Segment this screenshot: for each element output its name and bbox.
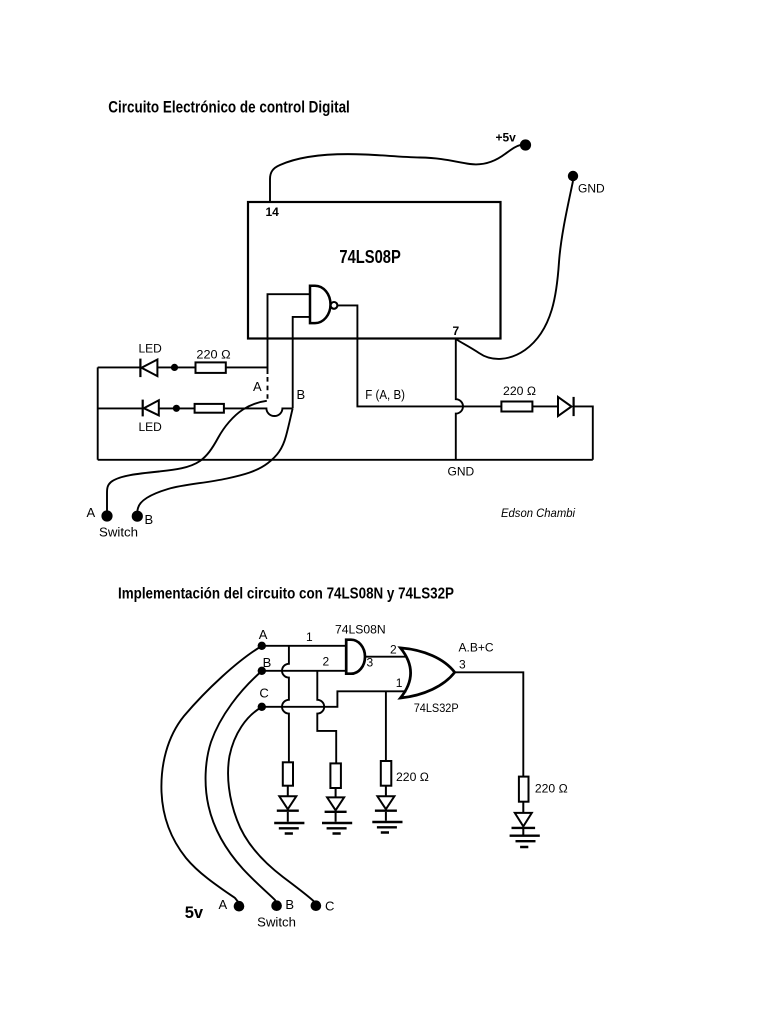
resistor R6 (381, 761, 392, 786)
long switch wire B (206, 671, 277, 903)
IC U1 74LS08P body (248, 202, 501, 339)
wire: gate output to F row and to resistor (337, 305, 501, 406)
svg-text:F (A, B): F (A, B) (365, 388, 405, 402)
svg-text:14: 14 (266, 205, 280, 219)
svg-text:5v: 5v (185, 904, 204, 922)
svg-text:2: 2 (390, 643, 397, 657)
wire: branch A down with two hops (282, 646, 289, 763)
wire: LED row 1 (98, 366, 268, 368)
switch C dot bottom (311, 900, 322, 911)
junction dot row 2 (173, 405, 180, 412)
GND terminal dot (568, 171, 578, 181)
svg-text:220 Ω: 220 Ω (535, 782, 568, 796)
switch A dot (101, 510, 112, 521)
svg-text:3: 3 (459, 658, 466, 672)
wire: pin 14 to +5v terminal (270, 145, 521, 202)
wire: gate input 1 down to node A (268, 294, 311, 374)
svg-text:LED: LED (139, 420, 163, 434)
svg-text:74LS08P: 74LS08P (339, 246, 400, 267)
svg-text:B: B (297, 387, 306, 402)
svg-text:B: B (263, 655, 272, 670)
resistor R7 (519, 777, 529, 802)
svg-text:Edson Chambi: Edson Chambi (501, 507, 575, 520)
wire: D3 to right rail down (574, 406, 593, 459)
OR gate 74LS32P body (400, 648, 454, 698)
AND gate 74LS08N body (346, 640, 365, 674)
switch B dot bottom (271, 900, 282, 911)
wire: input C to OR pin 1 (262, 691, 407, 707)
input A dot (258, 642, 266, 650)
svg-text:220 Ω: 220 Ω (503, 384, 536, 398)
svg-text:220 Ω: 220 Ω (196, 347, 230, 361)
svg-text:A: A (259, 627, 268, 642)
left rail (97, 367, 99, 459)
wire: pin 7 down with hop (456, 339, 463, 460)
wire: gate input 2 down to node B (293, 317, 310, 409)
wire: AND output to OR pin 2 (365, 656, 406, 658)
wire: input A to AND pin 1 (262, 645, 346, 647)
wire: LED row 2 with dip hop (98, 408, 293, 416)
wire: branch B down with hop (317, 671, 336, 764)
svg-text:GND: GND (448, 464, 475, 478)
ground symbol D5 (322, 823, 352, 834)
wire: GND terminal to pin 7 (457, 181, 574, 359)
svg-text:7: 7 (453, 324, 460, 338)
svg-text:A.B+C: A.B+C (459, 640, 494, 654)
bottom ground rail (98, 459, 593, 461)
node A dashed link (267, 377, 269, 402)
resistor R2 (195, 404, 224, 413)
LED D7 with ground (515, 802, 532, 835)
svg-text:GND: GND (578, 182, 605, 196)
svg-text:74LS32P: 74LS32P (414, 701, 459, 715)
svg-text:74LS08N: 74LS08N (335, 623, 386, 637)
input B dot (258, 667, 266, 675)
+5v terminal dot (520, 139, 531, 150)
svg-text:Implementación del circuito co: Implementación del circuito con 74LS08N … (118, 585, 454, 602)
wire: OR output down to R7 (455, 672, 524, 776)
switch B dot (132, 511, 143, 522)
switch wire B top circuit (137, 409, 292, 511)
LED D2 (142, 400, 144, 417)
svg-text:Switch: Switch (257, 916, 296, 930)
svg-text:Switch: Switch (99, 525, 138, 539)
svg-text:C: C (259, 686, 268, 701)
LED D6 with ground (377, 786, 394, 821)
gate U1A body (AND with bubble) (310, 286, 330, 323)
ground symbol D6 (372, 822, 402, 833)
svg-text:LED: LED (139, 342, 163, 356)
LED D1 (139, 359, 141, 378)
resistor R5 (330, 763, 341, 788)
long switch wire C (228, 707, 316, 904)
ground symbol D7 (510, 836, 540, 847)
svg-text:B: B (145, 512, 154, 527)
svg-text:C: C (325, 898, 334, 913)
resistor R3 (501, 402, 532, 412)
LED D5 with ground (327, 788, 344, 822)
ground symbol D4 (274, 823, 304, 834)
svg-text:220 Ω: 220 Ω (396, 770, 429, 784)
input C dot (258, 703, 266, 711)
svg-text:3: 3 (367, 656, 374, 670)
wire: R3 to diode D3 (532, 405, 558, 407)
switch A dot bottom (234, 901, 245, 912)
svg-text:A: A (253, 379, 262, 394)
svg-text:Circuito Electrónico de contro: Circuito Electrónico de control Digital (108, 97, 349, 116)
svg-text:1: 1 (306, 630, 313, 644)
svg-text:+5v: +5v (496, 130, 517, 144)
wire: input B to AND pin 2 (262, 670, 346, 672)
diode D3 (558, 397, 572, 416)
svg-text:B: B (285, 897, 294, 912)
switch wire A top circuit (107, 401, 267, 511)
junction dot row 1 (171, 364, 178, 371)
long switch wire A (161, 646, 261, 903)
gate output bubble (331, 302, 338, 309)
svg-text:A: A (219, 897, 228, 912)
svg-text:2: 2 (323, 655, 330, 669)
wire: branch to resistor R6 (385, 691, 387, 761)
svg-text:1: 1 (396, 676, 403, 690)
svg-text:A: A (87, 505, 96, 520)
resistor R1 220 ohm (196, 362, 226, 373)
resistor R4 (283, 762, 293, 785)
LED D4 with ground (279, 786, 296, 822)
